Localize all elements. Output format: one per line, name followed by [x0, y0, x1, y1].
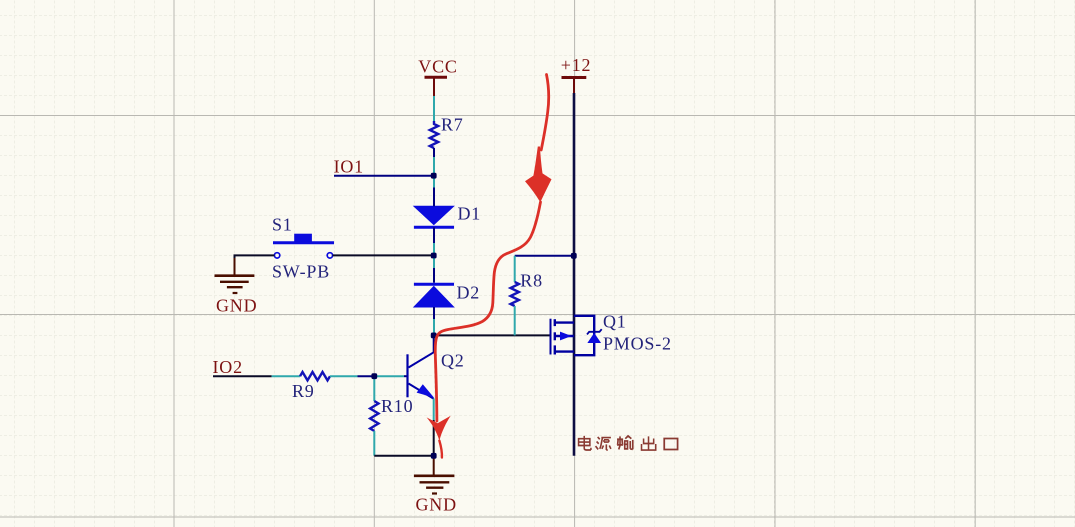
svg-text:VCC: VCC — [418, 56, 457, 76]
char 电 — [579, 436, 591, 450]
wire R7 to IO1 node — [433, 148, 435, 157]
node +12/R8 junction — [571, 253, 577, 259]
junction dots — [371, 173, 576, 459]
power rail +12 — [561, 55, 592, 93]
svg-text:Q2: Q2 — [441, 350, 465, 370]
power port VCC — [418, 56, 457, 96]
current arrow upper (red) — [435, 75, 551, 356]
label 电源输出口 (drawn strokes) — [579, 436, 678, 450]
wire base junction to Q2 — [374, 375, 404, 377]
svg-text:R10: R10 — [381, 396, 413, 416]
body diode of Q1 — [588, 334, 600, 343]
svg-text:R7: R7 — [441, 115, 464, 135]
resistor R9 — [292, 372, 330, 401]
wire S1 right terminal to D-node — [333, 254, 434, 256]
char 源 — [596, 437, 611, 450]
mosfet Q1 PMOS-2 — [551, 312, 672, 356]
wire IO2 lead — [213, 375, 272, 377]
diode D1 — [414, 188, 481, 254]
svg-text:IO2: IO2 — [213, 357, 243, 377]
wire +12 rail down to output — [573, 93, 576, 456]
wire Q2 emitter down — [433, 399, 435, 421]
current arrow lower (red) — [427, 355, 451, 458]
switch S1 — [272, 215, 334, 282]
svg-text:R8: R8 — [520, 271, 543, 291]
wire R8 top to +12 rail — [515, 255, 574, 257]
wire R10 bottom to emitter junction — [374, 455, 433, 457]
ground GND1 — [215, 276, 258, 316]
svg-text:R9: R9 — [292, 381, 315, 401]
resistor R7 — [430, 115, 464, 148]
resistor R10 — [370, 376, 413, 456]
svg-text:PMOS-2: PMOS-2 — [603, 333, 672, 353]
char 出 — [642, 436, 656, 450]
wire Q2 collector to gate node — [433, 335, 435, 352]
node emitter junction — [431, 453, 437, 459]
node switch/diode junction — [431, 253, 437, 259]
wire gate (to Q1) — [434, 334, 550, 336]
resistor R8 — [511, 256, 543, 336]
svg-text:S1: S1 — [272, 215, 293, 235]
transistor Q2 — [408, 350, 465, 399]
ground GND2 — [414, 456, 457, 515]
svg-text:+12: +12 — [561, 55, 592, 75]
char 输 — [617, 436, 633, 450]
svg-text:GND: GND — [216, 296, 257, 316]
wire VCC to R7 pin (cyan) — [433, 96, 435, 121]
svg-text:IO1: IO1 — [334, 157, 364, 177]
svg-text:D1: D1 — [458, 203, 482, 223]
svg-text:D2: D2 — [457, 283, 481, 303]
svg-text:SW-PB: SW-PB — [272, 261, 330, 281]
char 口 — [664, 439, 677, 450]
svg-text:Q1: Q1 — [603, 312, 627, 332]
node gate junction — [431, 333, 437, 339]
wire GND1 to S1 left terminal — [235, 255, 275, 259]
node IO1 junction — [431, 173, 437, 179]
wire IO1 — [334, 175, 434, 177]
node base junction — [371, 373, 377, 379]
svg-text:GND: GND — [416, 495, 457, 515]
diode D2 — [414, 258, 480, 333]
